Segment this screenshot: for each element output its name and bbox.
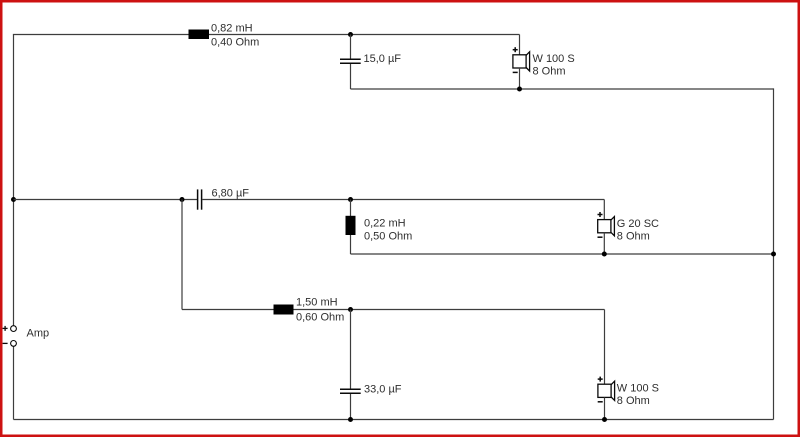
label speaker2 minus [598, 236, 603, 238]
wire shunt cap branch upper [350, 310, 352, 389]
svg-text:0,40 Ohm: 0,40 Ohm [211, 37, 259, 49]
wire left bus lower segment [13, 346, 15, 419]
svg-text:33,0 µF: 33,0 µF [364, 384, 402, 396]
node junction speaker2 bottom [602, 252, 607, 257]
node junction right bus mid [771, 252, 776, 257]
wire left bus upper segment [13, 35, 15, 326]
wire speaker2 drop lower [603, 233, 605, 254]
wire mid rail left [14, 199, 198, 201]
node junction speaker3 bottom [602, 417, 607, 422]
wire speaker3 drop upper [604, 310, 606, 385]
inductor L1 [189, 30, 210, 40]
svg-text:G 20 SC: G 20 SC [617, 218, 659, 230]
inductor L3 [274, 305, 294, 315]
svg-text:0,82 mH: 0,82 mH [211, 23, 253, 35]
label speaker1 minus [513, 71, 518, 73]
wire right bus [773, 88, 775, 419]
capacitor C2 [198, 189, 202, 209]
terminal amp minus [11, 341, 17, 347]
wire speaker1 drop lower [519, 68, 521, 89]
speaker U1 W 100 S [513, 52, 530, 71]
wire top section bottom rail [351, 88, 774, 90]
node junction top cap branch [348, 32, 353, 37]
svg-text:Amp: Amp [27, 328, 50, 340]
node junction speaker1 bottom [517, 87, 522, 92]
wire shunt cap branch lower [350, 394, 352, 420]
capacitor C3 [340, 389, 361, 393]
node junction woofer tap [180, 197, 185, 202]
label speaker2 plus [598, 212, 603, 217]
svg-text:8 Ohm: 8 Ohm [617, 231, 650, 243]
inductor L2 [346, 216, 356, 235]
wire top rail [13, 34, 520, 36]
wire mid rail right [202, 199, 604, 201]
node junction shunt cap bottom [348, 417, 353, 422]
svg-text:15,0 µF: 15,0 µF [364, 53, 402, 65]
label speaker3 minus [598, 401, 603, 403]
speaker U2 G 20 SC [598, 217, 615, 236]
svg-text:1,50 mH: 1,50 mH [296, 297, 338, 309]
svg-text:0,22 mH: 0,22 mH [364, 218, 406, 230]
wire mid section bottom rail [351, 253, 774, 255]
terminal amp plus [11, 326, 17, 332]
svg-text:6,80 µF: 6,80 µF [212, 187, 250, 199]
label speaker3 plus [598, 377, 603, 382]
wire bottom rail [14, 419, 774, 421]
wire shunt inductor branch [350, 200, 352, 255]
label speaker1 plus [513, 47, 518, 52]
svg-text:8 Ohm: 8 Ohm [533, 66, 566, 78]
wire speaker3 drop lower [604, 397, 606, 419]
svg-text:8 Ohm: 8 Ohm [617, 395, 650, 407]
svg-text:0,50 Ohm: 0,50 Ohm [364, 231, 412, 243]
wire cap C1 branch lower [350, 64, 352, 89]
svg-text:W 100 S: W 100 S [617, 383, 659, 395]
svg-text:0,60 Ohm: 0,60 Ohm [296, 312, 344, 324]
label amp plus sign [3, 326, 8, 331]
wire speaker1 drop upper [519, 35, 521, 56]
capacitor C1 [340, 59, 361, 63]
node junction shunt cap top [348, 307, 353, 312]
label amp minus sign [3, 342, 8, 344]
wire cap C1 branch upper [350, 35, 352, 59]
wire woofer rail [182, 309, 605, 311]
node junction mid tap [11, 197, 16, 202]
speaker U3 W 100 S [598, 381, 615, 400]
node junction shunt inductor top [348, 197, 353, 202]
wire woofer branch vertical [181, 200, 183, 310]
wire speaker2 drop upper [603, 200, 605, 220]
svg-text:W 100 S: W 100 S [533, 53, 575, 65]
